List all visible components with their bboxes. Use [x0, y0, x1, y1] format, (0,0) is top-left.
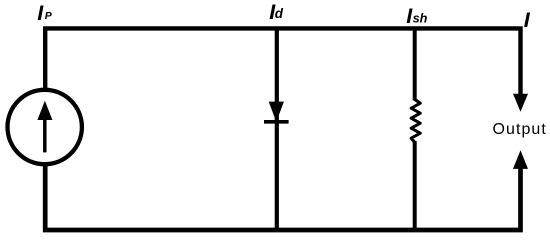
svg-text:I: I	[37, 1, 44, 25]
output return arrowhead up	[513, 150, 528, 169]
current source arrow (up)	[37, 101, 52, 153]
wire top bus	[45, 28, 520, 95]
svg-text:P: P	[45, 10, 53, 22]
svg-text:d: d	[275, 6, 284, 21]
svg-text:sh: sh	[413, 12, 428, 26]
diode D1 (triangle)	[269, 102, 284, 122]
svg-text:Output: Output	[493, 121, 547, 138]
wire shunt branch top	[413, 28, 417, 100]
wire bottom bus	[45, 164, 520, 230]
svg-text:I: I	[524, 8, 531, 32]
wire shunt branch bottom	[413, 141, 417, 230]
current source U1 circle	[8, 90, 82, 164]
wire diode branch	[275, 28, 279, 230]
output current arrowhead down	[513, 94, 528, 112]
resistor Rsh zigzag	[411, 99, 420, 142]
diode D1 cathode bar	[264, 120, 289, 124]
